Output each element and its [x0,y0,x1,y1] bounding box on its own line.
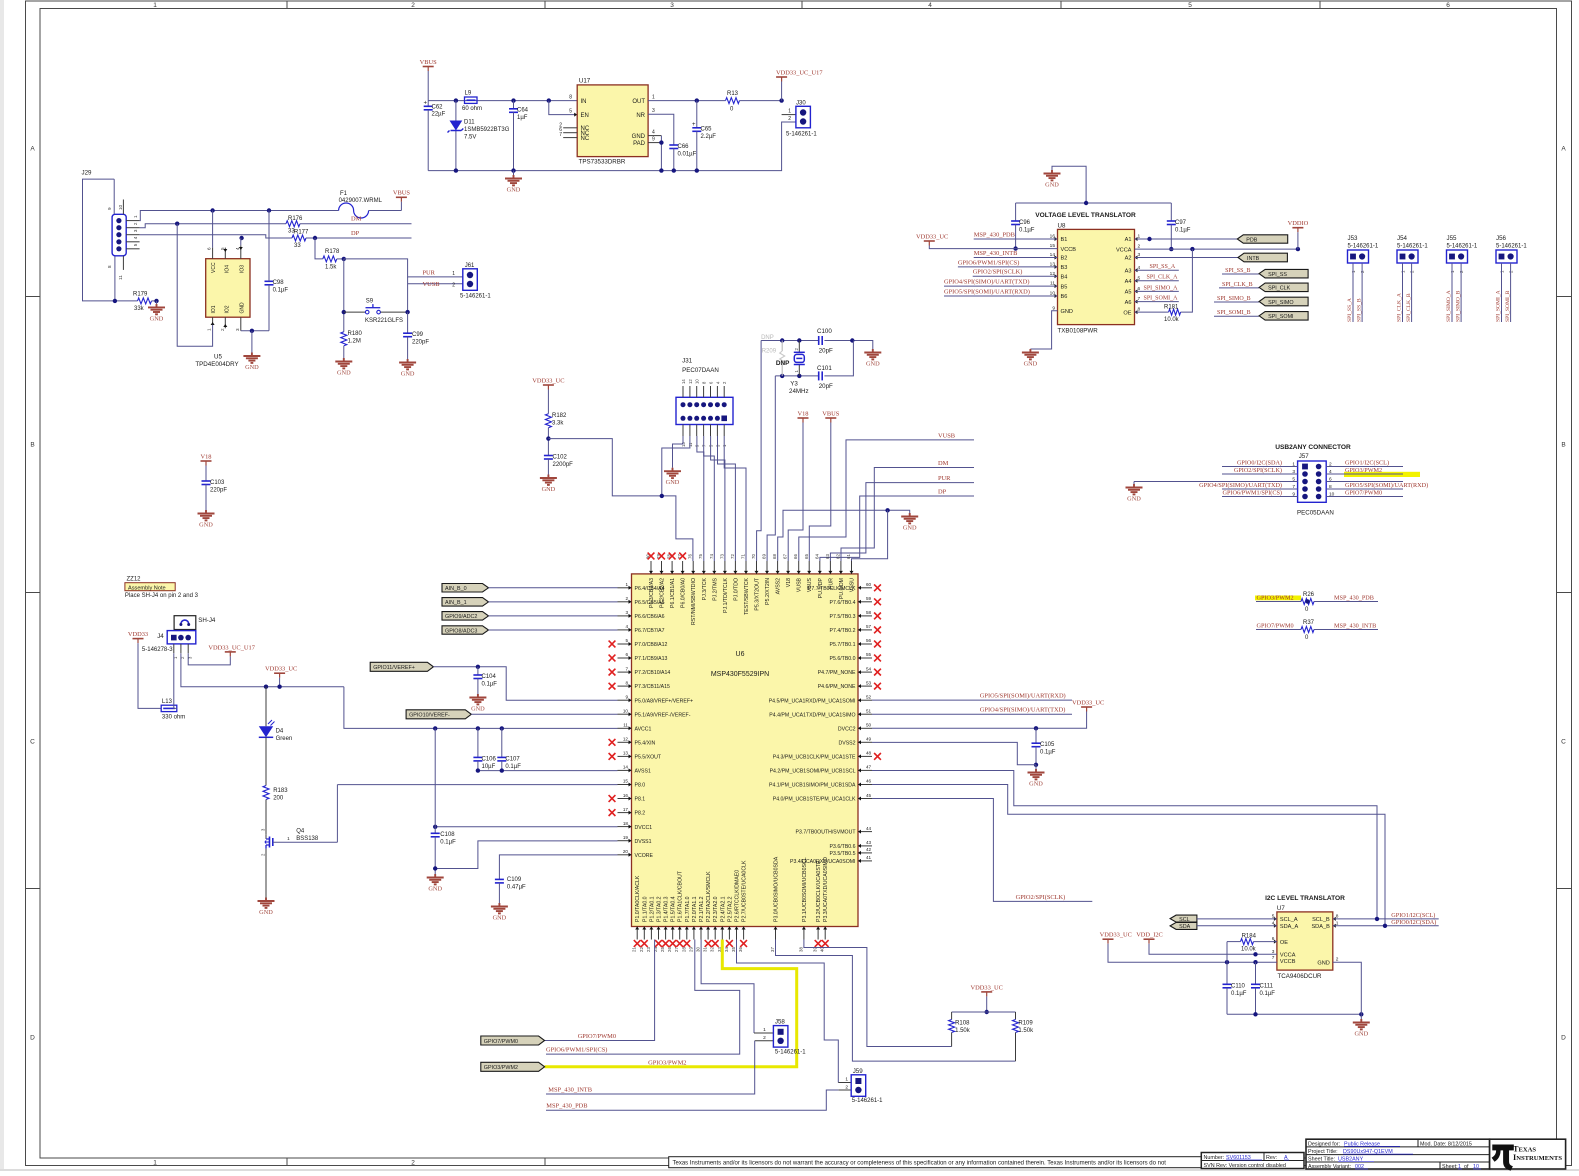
svg-text:P5.7/TB0.1: P5.7/TB0.1 [830,642,856,648]
wire J57 pin 2 [1326,460,1403,468]
svg-text:42: 42 [866,847,872,852]
svg-text:72: 72 [730,554,735,559]
svg-text:GPIO1/I2C(SCL): GPIO1/I2C(SCL) [1391,912,1435,919]
svg-text:GPIO3/PWM2: GPIO3/PWM2 [648,1059,686,1066]
svg-text:R181: R181 [1164,305,1179,311]
svg-text:SCL_A: SCL_A [1280,917,1298,923]
svg-text:P6.6/CB6/A6: P6.6/CB6/A6 [635,614,665,620]
svg-text:PDB: PDB [1246,237,1257,243]
svg-text:U17: U17 [579,78,591,85]
wire RST net [548,439,693,561]
svg-text:32: 32 [710,947,715,952]
svg-text:26: 26 [667,947,672,952]
svg-text:2: 2 [788,116,791,122]
capacitor C100 [817,328,833,354]
svg-text:B6: B6 [1061,294,1068,300]
svg-text:R13: R13 [727,91,739,97]
wire J57 pin 4 [1326,467,1420,477]
svg-text:VCCB: VCCB [1061,247,1077,253]
svg-text:VCCA: VCCA [1280,953,1296,959]
note ZZ12 Assembly Note [125,577,199,599]
svg-text:5-146261-1: 5-146261-1 [775,1049,806,1055]
svg-text:33: 33 [294,243,301,249]
label USB2ANY CONNECTOR [1275,444,1351,451]
svg-text:C106: C106 [482,756,497,762]
wire GPIO6/PWM1 net [546,940,740,1055]
svg-text:R108: R108 [955,1021,970,1027]
svg-text:GND: GND [1354,1031,1368,1038]
svg-text:Mod. Date: 8/12/2015: Mod. Date: 8/12/2015 [1420,1141,1472,1147]
svg-text:GPIO4/SPI(SIMO)/UART(TXD): GPIO4/SPI(SIMO)/UART(TXD) [1199,482,1282,489]
svg-text:TEST/SBWTCK: TEST/SBWTCK [744,577,750,614]
svg-text:2: 2 [625,596,628,601]
svg-text:63: 63 [825,554,830,559]
wire GPIO8/ADC3 [489,629,618,631]
svg-text:C102: C102 [553,455,568,461]
svg-text:2: 2 [411,2,415,9]
svg-text:SPI_SOMI_B: SPI_SOMI_B [1505,290,1511,322]
svg-text:10.0k: 10.0k [1241,947,1257,953]
svg-text:GND: GND [240,302,246,314]
svg-text:DM: DM [938,460,949,467]
svg-text:7: 7 [1292,484,1295,490]
svg-text:46: 46 [866,779,872,784]
svg-text:P7.3/CB11/A15: P7.3/CB11/A15 [635,684,670,690]
svg-text:VBUS: VBUS [393,190,410,197]
svg-text:9: 9 [1292,492,1295,498]
svg-text:P7.2/CB10/A14: P7.2/CB10/A14 [635,670,671,676]
label SPI_SS_B / flag SPI_SS [1222,268,1308,278]
svg-text:ZZ12: ZZ12 [127,577,142,583]
svg-text:VOLTAGE LEVEL TRANSLATOR: VOLTAGE LEVEL TRANSLATOR [1035,212,1136,219]
wire C110 C111 bottom rail [1227,1012,1364,1016]
svg-text:1: 1 [788,109,791,115]
svg-text:P3.5/TB0.5: P3.5/TB0.5 [830,851,856,857]
svg-text:DM: DM [351,216,362,223]
svg-text:SPI_CLK_B: SPI_CLK_B [1406,293,1412,322]
resistor R182 [545,413,567,455]
resistor R181 [1135,249,1193,323]
svg-text:GPIO0/I2C(SDA): GPIO0/I2C(SDA) [1391,919,1436,926]
svg-text:54: 54 [866,666,872,671]
svg-text:J56: J56 [1496,235,1507,242]
svg-text:3.3k: 3.3k [552,421,564,427]
svg-text:64: 64 [814,554,819,559]
wire OE vertical [1226,942,1228,963]
svg-text:5-146278-3: 5-146278-3 [142,647,173,653]
label I2C LEVEL TRANSLATOR [1265,895,1345,902]
svg-text:0.1µF: 0.1µF [482,682,498,688]
svg-text:P6.3/CB3/A3: P6.3/CB3/A3 [649,578,655,608]
power flag VDD33_UC at R108 [971,984,1003,1014]
wire to R178 [315,238,323,259]
wire SCL to U7 [1197,918,1277,920]
svg-text:2: 2 [411,1159,415,1166]
svg-text:P5.1/A9/VREF-/VEREF-: P5.1/A9/VREF-/VEREF- [635,712,691,718]
svg-text:1: 1 [845,1077,848,1083]
svg-text:59: 59 [866,596,872,601]
flag GPIO11/VEREF+ [370,662,433,671]
svg-text:SPI_SOMI_A: SPI_SOMI_A [1144,296,1179,302]
svg-text:BSS138: BSS138 [296,836,319,842]
svg-text:Rev:: Rev: [1266,1155,1277,1161]
svg-text:VDD33_UC: VDD33_UC [532,377,564,384]
svg-text:U6: U6 [736,651,745,658]
connector J58 5-146261-1 [754,1019,806,1056]
svg-text:R183: R183 [273,788,288,794]
connector J54 5-146261-1 [1397,235,1429,322]
svg-text:0.1µF: 0.1µF [1260,991,1276,997]
svg-text:10µF: 10µF [482,764,496,770]
svg-text:SPI_SIMO_A: SPI_SIMO_A [1144,285,1179,291]
svg-text:55: 55 [866,652,872,657]
wire GPIO10/VEREF- [471,713,617,715]
svg-text:P2.3/TA2.0: P2.3/TA2.0 [713,896,719,922]
svg-text:10.0k: 10.0k [1164,317,1180,323]
svg-text:Sheet Title:: Sheet Title: [1308,1157,1335,1163]
svg-text:15: 15 [623,779,629,784]
svg-text:GND: GND [1045,182,1059,189]
svg-text:DVSS1: DVSS1 [635,839,652,845]
svg-text:3: 3 [1292,469,1295,475]
svg-text:VDD33_UC: VDD33_UC [916,233,948,240]
flag GPIO3/PWM2 [481,1062,545,1071]
svg-text:3: 3 [625,610,628,615]
svg-text:C96: C96 [1019,220,1031,226]
wire GPIO5 RXD net [872,693,1072,701]
wire J57 pin 10 [1326,490,1403,498]
svg-text:GND: GND [428,886,442,893]
svg-text:Assembly Variant:: Assembly Variant: [1308,1164,1351,1170]
svg-text:VBUS: VBUS [420,59,437,66]
wire AVCC1 [344,687,618,731]
svg-text:20pF: 20pF [819,383,833,390]
svg-text:21: 21 [632,947,637,952]
svg-text:P4.0/PM_UCB1STE/PM_UCA1CLK: P4.0/PM_UCB1STE/PM_UCA1CLK [773,797,856,803]
svg-text:J58: J58 [775,1019,786,1026]
svg-text:P3.3/UCA0TXD/UCA0SIMO: P3.3/UCA0TXD/UCA0SIMO [823,857,829,922]
wire J57 pin 5 [1222,477,1298,483]
svg-text:10: 10 [695,379,700,384]
svg-text:SCL_B: SCL_B [1312,917,1330,923]
svg-text:GPIO3/PWM2: GPIO3/PWM2 [1257,595,1294,602]
wire VCCA U8 [1135,247,1301,251]
svg-text:J54: J54 [1397,235,1408,242]
svg-text:1: 1 [207,328,212,331]
svg-text:1.5k: 1.5k [325,264,337,270]
svg-text:GND: GND [471,706,485,713]
wire Q4 gate to P8.0 [336,785,338,843]
svg-text:U8: U8 [1058,222,1066,229]
svg-text:GND: GND [493,915,507,922]
svg-text:PJ.2/TMS: PJ.2/TMS [712,577,718,600]
svg-text:4: 4 [928,2,932,9]
svg-text:R26: R26 [1303,592,1315,598]
svg-text:PUR: PUR [828,578,834,589]
svg-text:C103: C103 [210,480,225,486]
svg-text:2: 2 [763,1035,766,1041]
svg-text:VBUS: VBUS [822,410,839,417]
svg-text:J30: J30 [796,100,806,106]
svg-text:2: 2 [845,1085,848,1091]
svg-text:61: 61 [846,554,851,559]
svg-text:53: 53 [866,680,872,685]
U6 bottom pins [632,856,830,952]
ground GND at J57 [1126,482,1223,503]
wire AIN_B_0 [489,587,618,589]
wire AVSS2 to GND [778,508,910,561]
svg-text:43: 43 [866,840,872,845]
resistor R184 [1227,933,1277,952]
svg-text:GPIO9/ADC2: GPIO9/ADC2 [445,614,477,620]
ground GND under U7 [1353,1014,1370,1037]
power flag VDDIO [1288,220,1309,249]
svg-text:DNP: DNP [761,335,774,341]
wire Q4 source to GND [258,849,275,916]
svg-text:10: 10 [1329,492,1335,498]
svg-text:MSP_430_INTB: MSP_430_INTB [1334,623,1376,630]
svg-text:R180: R180 [348,331,363,337]
svg-text:C107: C107 [505,756,520,762]
resistor R13 [726,91,784,113]
power flag VDD33_UC at DVCC2 [1072,699,1104,711]
svg-text:P2.2/TA2CLK/SMCLK: P2.2/TA2CLK/SMCLK [706,871,712,922]
svg-text:Designed for:: Designed for: [1308,1141,1340,1147]
svg-text:GPIO11/VEREF+: GPIO11/VEREF+ [373,665,415,671]
svg-text:0.1µF: 0.1µF [440,840,456,846]
svg-text:C: C [30,738,35,745]
svg-text:EN: EN [581,113,589,119]
connector J29 [82,170,140,301]
wire S9 left [342,259,366,332]
svg-text:C105: C105 [1040,742,1055,748]
connector J57 PEC05DAAN [1297,453,1334,516]
svg-text:KSR221GLFS: KSR221GLFS [365,318,403,324]
power flag VDD33 [128,631,161,708]
diode D11 1SMB5922BT3G [448,101,510,171]
wire U7 GND [1333,962,1362,1014]
ground GND under R180 [335,358,352,377]
svg-text:1: 1 [1292,462,1295,468]
svg-text:52: 52 [866,694,872,699]
ground GND under C102 [540,475,557,494]
svg-text:62: 62 [835,554,840,559]
title block link underlines [1226,1146,1481,1169]
svg-text:20: 20 [623,849,629,854]
svg-text:DP: DP [351,230,360,237]
wire R108 R109 top rail [952,1011,1016,1013]
svg-text:TPD4E004DRY: TPD4E004DRY [195,361,238,368]
svg-text:18: 18 [623,821,629,826]
svg-text:Texas Instruments and/or its l: Texas Instruments and/or its licensors d… [673,1161,1167,1167]
wire SPI_SOMI_A [1135,296,1179,302]
svg-text:R182: R182 [552,413,567,419]
svg-text:IO2: IO2 [224,305,230,313]
svg-text:P2.0/TA1.1: P2.0/TA1.1 [692,896,698,922]
svg-text:45: 45 [866,793,872,798]
svg-text:1: 1 [652,95,655,101]
svg-text:MSP_430_INTB: MSP_430_INTB [974,250,1018,257]
svg-text:J57: J57 [1299,453,1310,460]
power flag VDD33_UC at U7 [1100,932,1277,965]
svg-text:PAD: PAD [633,141,646,147]
IC U8 TXB0108PWR [1050,222,1141,334]
svg-text:220pF: 220pF [412,340,429,346]
wire PUR net bundle [830,475,974,561]
svg-text:VDD33_UC: VDD33_UC [1100,932,1132,939]
title block project box [1306,1139,1490,1170]
svg-text:VDD33_UC: VDD33_UC [265,666,297,673]
wire XT2 top rail [761,338,873,349]
svg-text:DVSS2: DVSS2 [838,740,855,746]
svg-text:50: 50 [866,723,872,728]
svg-text:GND: GND [1127,496,1141,503]
capacitor C101 [817,365,833,390]
svg-text:12: 12 [623,737,629,742]
svg-text:TEXAS: TEXAS [1513,1145,1536,1154]
svg-text:VCCA: VCCA [1116,247,1132,253]
svg-text:SPI_SS_B: SPI_SS_B [1225,268,1250,274]
svg-text:67: 67 [783,554,788,559]
resistor R183 [263,737,288,834]
svg-text:69: 69 [762,554,767,559]
svg-text:GND: GND [1317,960,1329,966]
resistor R177 [292,230,412,249]
op-amp U17 TPS73533DRBR [559,78,655,166]
power flag VBUS [420,59,437,71]
svg-text:0.01µF: 0.01µF [678,152,697,158]
svg-text:22µF: 22µF [432,112,446,118]
svg-text:DP: DP [938,489,947,496]
capacitor C64 [509,101,529,171]
svg-text:P7.4/TB0.2: P7.4/TB0.2 [830,628,856,634]
wire GPIO4 to B5 [944,279,1058,287]
svg-text:PJ.3/TCK: PJ.3/TCK [702,577,708,600]
title block disclaimer [669,1157,1202,1168]
ground GND under C99 [399,359,416,378]
svg-text:OE: OE [1280,940,1288,946]
capacitor C103 [202,480,228,510]
wire SCL_B [1333,912,1439,921]
svg-text:GPIO2/SPI(SCLK): GPIO2/SPI(SCLK) [1234,467,1282,474]
svg-text:R176: R176 [288,216,303,222]
flag GPIO10/VEREF- [406,710,471,719]
svg-text:VBUS: VBUS [807,577,813,592]
svg-text:2: 2 [452,283,455,289]
connector J4 5-146278-3 [142,631,196,659]
svg-text:11: 11 [623,723,628,728]
svg-text:20pF: 20pF [819,347,833,354]
svg-text:U7: U7 [1277,905,1285,912]
wire GND rail to caps [1016,201,1172,205]
resistor R178 [323,249,346,271]
svg-text:C65: C65 [701,127,713,133]
svg-text:GPIO6/PWM1/SPI(CS): GPIO6/PWM1/SPI(CS) [546,1047,607,1054]
wire U5 VCC [212,211,214,248]
svg-text:31: 31 [703,947,708,952]
svg-text:38: 38 [798,947,803,952]
svg-text:VDD33_UC_U17: VDD33_UC_U17 [776,69,823,76]
IC U7 TCA9406DCUR [1272,905,1339,980]
svg-text:D4: D4 [276,728,284,734]
power flag V18 at C103 [200,453,211,481]
svg-text:P7.1/CB9/A13: P7.1/CB9/A13 [635,656,668,662]
svg-text:VDD33_UC: VDD33_UC [1072,699,1104,706]
wire U5 IO3 to DP [240,238,242,245]
svg-text:P3.6/TB0.6: P3.6/TB0.6 [830,844,856,850]
svg-text:L13: L13 [162,699,173,705]
power flag V18 bundle [797,410,808,422]
svg-text:SPI_CLK_A: SPI_CLK_A [1397,293,1403,322]
resistor R180 [341,331,363,358]
svg-text:GND: GND [337,370,351,377]
svg-text:4: 4 [1329,469,1332,475]
svg-text:P5.2/XT2IN: P5.2/XT2IN [765,578,771,605]
wire VBUS to rail [427,71,429,101]
svg-text:C97: C97 [1175,220,1187,226]
svg-text:P3.2/UCB0CLK/UCA0STE: P3.2/UCB0CLK/UCA0STE [816,860,822,922]
svg-text:+: + [692,122,696,128]
svg-text:B2: B2 [1061,256,1068,262]
svg-text:0.1µF: 0.1µF [1040,750,1056,756]
svg-text:P5.6/TB0.0: P5.6/TB0.0 [830,656,856,662]
svg-text:P4.6/PM_NONE: P4.6/PM_NONE [818,684,856,690]
wire VCCB U8 [929,246,1057,249]
svg-text:2: 2 [1329,462,1332,468]
flag GPIO8/ADC3 [442,626,489,635]
svg-text:7: 7 [625,666,628,671]
svg-text:VCORE: VCORE [635,853,654,859]
svg-text:13: 13 [623,751,629,756]
svg-text:VDD33_UC_U17: VDD33_UC_U17 [208,644,255,651]
svg-text:MSP_430_PDB: MSP_430_PDB [974,231,1015,238]
wire GPIO3/PWM2 yellow bus [545,940,797,1067]
svg-text:4: 4 [625,624,628,629]
svg-text:2: 2 [220,328,225,331]
svg-text:17: 17 [623,807,629,812]
svg-text:SDA_B: SDA_B [1311,924,1330,930]
wire bottom rail U17 [428,122,796,173]
capacitor C99 [403,312,429,359]
svg-text:33k: 33k [134,306,145,312]
svg-text:SPI_SIMO_B: SPI_SIMO_B [1217,296,1251,302]
svg-text:Assembly Note: Assembly Note [128,585,166,591]
svg-text:P2.5/TA2.2: P2.5/TA2.2 [727,896,733,922]
power flag VDD_I2C [1136,932,1277,957]
svg-text:V18: V18 [797,410,808,417]
pin stubs U17 NC [563,128,577,138]
svg-text:P8.0: P8.0 [635,783,646,789]
svg-text:C: C [1561,738,1566,745]
svg-text:Place SH-J4 on pin 2 and 3: Place SH-J4 on pin 2 and 3 [125,593,199,599]
svg-text:220pF: 220pF [210,488,227,494]
wire VSSU to GND [852,510,888,561]
svg-text:DVCC2: DVCC2 [838,726,856,732]
wire EN [549,101,577,117]
svg-text:10: 10 [118,204,123,210]
svg-text:A5: A5 [1125,290,1132,296]
resistor R179 [113,291,159,312]
svg-text:SH-J4: SH-J4 [198,617,216,624]
svg-text:SPI_CLK: SPI_CLK [1268,286,1291,292]
svg-text:GND: GND [245,364,259,371]
svg-text:MSP430F5529IPN: MSP430F5529IPN [711,671,769,678]
power flag VBUS bundle [822,410,839,422]
svg-text:R209: R209 [762,349,777,355]
svg-text:U5: U5 [214,354,222,361]
svg-text:P3.0/UCB0SIMO/UCB0SDA: P3.0/UCB0SIMO/UCB0SDA [774,856,780,922]
svg-text:SDA: SDA [1179,924,1190,930]
